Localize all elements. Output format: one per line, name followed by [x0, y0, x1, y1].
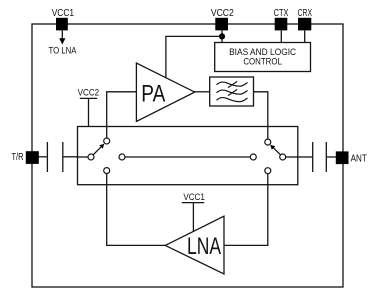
pin CTX [275, 18, 288, 31]
left switch arm [93, 147, 101, 155]
switch block box [78, 127, 298, 185]
svg-text:TO LNA: TO LNA [49, 45, 78, 56]
arrow VCC1 to LNA [61, 30, 63, 38]
left switch pole wire [78, 156, 88, 158]
capacitor C1 [39, 142, 78, 172]
op-amp LNA U3 [165, 216, 224, 274]
series path wire [125, 156, 250, 158]
wire LNA output to left switch [107, 174, 166, 246]
package outline [32, 24, 343, 287]
wire VCC2 pin to bias box [221, 30, 223, 42]
wire filter to antenna switch [254, 92, 268, 139]
svg-text:VCC1: VCC1 [52, 8, 75, 19]
right switch bottom contact [265, 168, 271, 174]
left switch pole contact [88, 154, 94, 160]
wire PA input from switch [107, 92, 137, 138]
filter FL1 box [210, 77, 254, 106]
pin VCC2 [215, 18, 228, 31]
wire VCC2 to PA supply [166, 36, 222, 78]
filter FL1 waves [217, 81, 248, 101]
junction dot VCC2 [219, 33, 225, 39]
pin T/R [26, 151, 39, 164]
right switch arm [272, 147, 280, 155]
bias box U2 [215, 43, 311, 72]
right switch pole wire [286, 156, 298, 158]
right switch pole contact [280, 154, 286, 160]
svg-text:VCC2: VCC2 [211, 8, 234, 19]
svg-text:CRX: CRX [298, 8, 313, 19]
wire PA output to filter [195, 91, 210, 93]
series path right contact [250, 154, 256, 160]
op-amp PA U1 [136, 63, 194, 121]
right switch top contact [265, 139, 271, 145]
svg-text:T/R: T/R [12, 152, 24, 163]
svg-text:CTX: CTX [274, 8, 289, 19]
svg-text:CONTROL: CONTROL [243, 57, 282, 67]
svg-text:VCC1: VCC1 [183, 192, 205, 203]
svg-text:ANT: ANT [351, 153, 367, 164]
capacitor C2 [298, 142, 336, 172]
wire CRX to bias box [304, 30, 306, 42]
wire LNA input from right switch [224, 174, 268, 246]
wire CTX to bias box [280, 30, 282, 42]
left switch bottom contact [104, 168, 110, 174]
pin CRX [298, 18, 311, 31]
left switch top contact [104, 138, 110, 144]
pin VCC1 [56, 18, 68, 31]
svg-text:PA: PA [141, 80, 166, 107]
pin ANT [336, 151, 349, 164]
svg-text:VCC2: VCC2 [78, 88, 100, 99]
series path left contact [119, 154, 125, 160]
svg-text:LNA: LNA [187, 233, 221, 260]
